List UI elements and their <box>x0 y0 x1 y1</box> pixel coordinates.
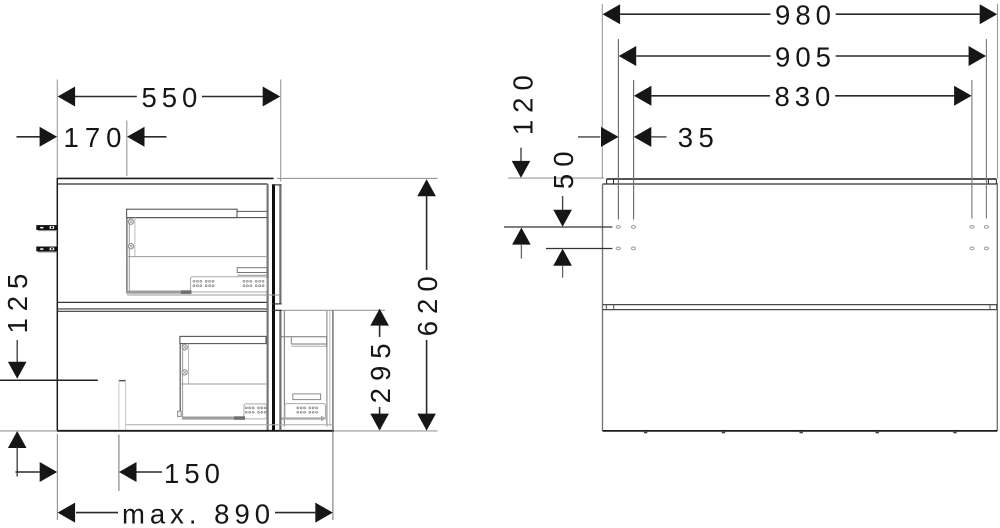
svg-text:830: 830 <box>774 81 835 112</box>
svg-text:295: 295 <box>365 336 396 403</box>
dimension 980 <box>602 0 997 179</box>
drawer front panels (side view) <box>272 184 282 430</box>
svg-text:150: 150 <box>164 458 225 489</box>
front view: countertop <box>603 179 998 184</box>
upper drawer bracket tab <box>237 268 267 276</box>
wall mounting bracket (lower) <box>36 247 57 253</box>
front view: cabinet body <box>603 184 998 431</box>
125 reference line <box>0 379 98 381</box>
upper drawer screws <box>128 219 133 224</box>
svg-text:35: 35 <box>678 122 720 153</box>
svg-text:620: 620 <box>412 269 443 336</box>
dimension max. 890 (bottom) <box>57 432 333 528</box>
lower drawer plate (front section) <box>285 404 326 419</box>
dimension 150 (bottom) <box>16 435 225 492</box>
siphon cut-out strip <box>118 380 126 430</box>
dimension 35 <box>578 122 719 153</box>
svg-text:550: 550 <box>141 82 202 113</box>
hole row reference lines <box>504 227 612 249</box>
upper drawer perforated plate <box>191 277 267 292</box>
front view: mounting holes <box>616 226 988 250</box>
svg-text:905: 905 <box>775 42 836 73</box>
lower drawer perforated plate <box>244 404 267 419</box>
dimension 170 <box>17 121 167 177</box>
drawer front mounting assembly (right of panel) <box>282 310 386 430</box>
svg-text:170: 170 <box>64 122 128 153</box>
wall mounting bracket (upper) <box>36 225 57 231</box>
lower drawer slide rail bar <box>178 411 245 420</box>
lower drawer slide assembly <box>180 336 327 416</box>
svg-text:max. 890: max. 890 <box>122 498 275 528</box>
dimension 550 (top) <box>57 80 280 182</box>
svg-text:125: 125 <box>2 267 33 334</box>
svg-text:120: 120 <box>507 68 538 135</box>
front view: adjustable feet marks <box>644 432 957 434</box>
svg-text:50: 50 <box>548 145 579 190</box>
upper drawer slide rail bar <box>126 290 281 295</box>
slide rail bar (front section) <box>126 416 334 425</box>
dimension 50 <box>548 145 579 278</box>
dimension 120 <box>507 68 604 258</box>
dimension 620 (right) <box>277 178 443 430</box>
svg-text:980: 980 <box>775 0 836 31</box>
lower drawer screws <box>182 345 187 350</box>
cabinet carcass (side section) <box>0 178 438 431</box>
dimension 125 (left) <box>2 267 33 477</box>
dimension 295 <box>365 309 396 431</box>
dimension 830 <box>634 80 972 220</box>
upper drawer slide assembly <box>127 209 268 291</box>
dimension 905 <box>618 39 986 220</box>
